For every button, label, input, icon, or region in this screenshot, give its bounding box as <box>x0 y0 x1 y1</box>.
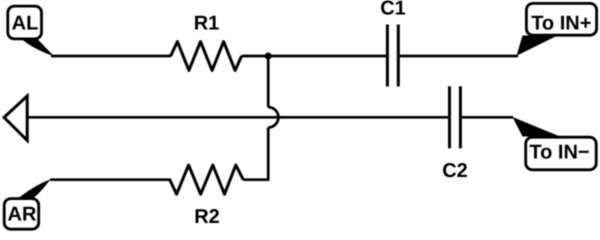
wire R2 to vertical riser <box>243 178 268 181</box>
node junction dot <box>265 53 272 60</box>
wire vertical riser lower segment <box>267 128 270 182</box>
svg-text:AR: AR <box>8 204 37 226</box>
wire AR to R2 <box>50 178 171 181</box>
svg-text:C1: C1 <box>380 0 406 20</box>
wire AL to R1 <box>51 55 171 58</box>
callout To IN+ <box>517 3 597 55</box>
wire R1 to C1 <box>242 55 388 58</box>
wire hop over middle wire <box>268 107 278 127</box>
capacitor C1 <box>387 25 398 87</box>
svg-text:AL: AL <box>12 13 39 35</box>
svg-text:R1: R1 <box>194 13 220 35</box>
resistor R2 <box>170 165 244 194</box>
callout To IN- <box>513 117 597 170</box>
callout AR <box>4 179 50 229</box>
wire triangle to C2 <box>27 116 449 119</box>
svg-text:R2: R2 <box>194 206 220 228</box>
wire vertical riser upper segment <box>267 56 270 107</box>
svg-text:C2: C2 <box>442 160 468 182</box>
resistor R1 <box>171 42 242 71</box>
wire C1 to IN+ <box>398 55 518 58</box>
capacitor C2 <box>450 86 461 148</box>
callout AL <box>8 6 54 56</box>
input arrow triangle <box>4 96 27 140</box>
svg-text:To IN−: To IN− <box>529 141 589 163</box>
wire C2 to IN- <box>462 116 513 119</box>
svg-text:To IN+: To IN+ <box>531 13 591 35</box>
